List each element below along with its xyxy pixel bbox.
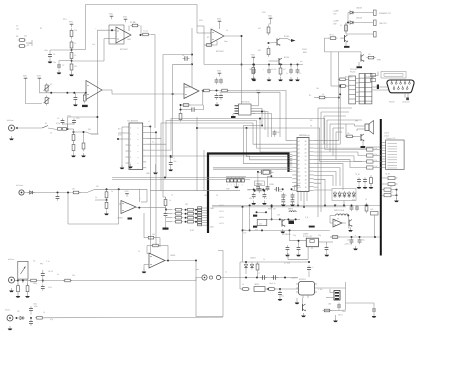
svg-text:VDD: VDD <box>268 15 273 17</box>
resistor R30 <box>365 203 368 213</box>
label TX <box>310 126 313 128</box>
svg-text:10k: 10k <box>375 166 378 168</box>
wire R47 in <box>338 78 349 80</box>
label 1k <box>340 25 342 27</box>
label BC546 <box>284 36 289 38</box>
svg-text:LCD16: LCD16 <box>384 133 389 135</box>
DB9 dark pad <box>406 98 409 101</box>
dark blob Q6 <box>361 146 366 148</box>
svg-text:p4: p4 <box>298 152 300 154</box>
label BC556 <box>284 57 289 59</box>
connector strip1 <box>349 76 356 104</box>
wire rail y168b <box>213 168 289 170</box>
label VBUS <box>256 183 263 186</box>
svg-text:+: + <box>263 69 264 71</box>
resistor R35 <box>366 54 381 62</box>
power VDD divider <box>69 21 74 27</box>
svg-text:18F2550 (s): 18F2550 (s) <box>299 135 310 137</box>
wire y212 stub <box>256 211 268 213</box>
resistor R7 <box>70 62 73 72</box>
label 18F2550 <box>299 135 310 137</box>
op-amp U1 <box>116 27 131 43</box>
ground C1 <box>48 59 53 63</box>
IC U7 pins left <box>126 127 130 163</box>
wire J2 rail <box>24 192 71 194</box>
label 7k5 <box>133 22 136 24</box>
svg-text:LCD20: LCD20 <box>384 135 389 137</box>
connector J3 BNC <box>9 277 15 283</box>
resistor ladder R-2R <box>166 208 197 223</box>
label PROG BY <box>350 69 358 74</box>
svg-text:100n: 100n <box>44 50 48 52</box>
svg-text:VDD: VDD <box>124 191 129 193</box>
svg-text:VDD: VDD <box>109 13 114 15</box>
capacitor C36h <box>274 187 293 191</box>
IC U10 pins right <box>309 140 314 190</box>
capacitor C14b <box>40 264 45 291</box>
IC X2 box <box>306 238 318 247</box>
wire mcu r6 <box>314 156 362 162</box>
transistor Q2 <box>269 58 283 65</box>
label box MHz <box>254 181 264 186</box>
svg-text:9V DC: 9V DC <box>338 315 344 317</box>
svg-text:VDD/2: VDD/2 <box>302 49 307 51</box>
wire switcher <box>330 216 348 224</box>
label 22p <box>318 235 321 237</box>
ground C2 <box>57 70 62 74</box>
label C3 <box>16 26 18 28</box>
label VUSB <box>269 184 274 186</box>
svg-text:1N4148: 1N4148 <box>356 8 362 10</box>
wire out1 <box>355 12 373 14</box>
wires below DB9 <box>405 93 408 101</box>
label conn top <box>384 133 389 138</box>
wire U1 +input <box>97 29 116 31</box>
wire fan x197 <box>196 117 198 191</box>
wire VDD to trimmer <box>26 81 43 104</box>
svg-text:p6: p6 <box>298 160 300 162</box>
wire mcu r4 <box>314 148 367 149</box>
wire mcu r13 <box>314 183 321 212</box>
capacitor C39 <box>285 245 290 256</box>
svg-text:In/Osc: In/Osc <box>5 310 11 312</box>
capacitor C35 <box>263 193 268 201</box>
svg-text:MCP602: MCP602 <box>216 51 225 53</box>
label 10k <box>316 88 319 90</box>
dark resistor A <box>253 215 257 217</box>
resistor R34 <box>278 65 285 82</box>
svg-text:1k 1%: 1k 1% <box>219 211 224 213</box>
label 100n <box>33 304 37 306</box>
bus thick LCD bus <box>380 119 382 256</box>
label F_B <box>305 217 309 219</box>
svg-text:R8: R8 <box>16 36 18 38</box>
capacitor C33 electrolytic <box>258 187 270 193</box>
svg-text:1k: 1k <box>43 312 45 314</box>
capacitor C15 <box>29 306 33 319</box>
resistor bus row 3 <box>367 160 381 163</box>
svg-text:RN 4x10k: RN 4x10k <box>345 77 353 79</box>
wire DDS fan pin3 <box>146 123 292 144</box>
connector P2 box <box>386 140 405 170</box>
capacitor C10 <box>72 118 79 125</box>
node U3b out <box>202 90 204 92</box>
IC U11 amp <box>299 279 315 295</box>
svg-text:+: + <box>140 198 141 200</box>
node U1 output <box>140 34 142 36</box>
svg-text:C1: C1 <box>53 54 55 56</box>
resistor R17 <box>72 142 75 152</box>
label D8 <box>211 208 215 210</box>
svg-text:2: 2 <box>130 133 131 135</box>
capacitor C24 <box>271 275 278 279</box>
label VDD <box>199 20 203 22</box>
resistor R45 <box>252 65 255 75</box>
wire mcu r8 <box>314 164 343 190</box>
capacitor C16 <box>29 318 33 326</box>
svg-text:1k: 1k <box>340 25 342 27</box>
svg-text:2R2: 2R2 <box>185 204 188 206</box>
svg-text:BC556: BC556 <box>284 57 289 59</box>
resistor R3 output U1 <box>141 33 150 36</box>
svg-text:OA1: OA1 <box>127 38 131 41</box>
wire fan low <box>171 156 293 160</box>
label SD <box>118 129 121 131</box>
svg-text:47u 16v: 47u 16v <box>271 69 277 71</box>
label In/Drive <box>7 119 14 122</box>
dark component C <box>289 221 295 225</box>
ground J4 <box>8 326 13 330</box>
resistor R44 <box>322 309 331 312</box>
svg-text:C+: C+ <box>312 267 314 269</box>
wire mcu RX <box>314 93 342 144</box>
wire rail y190 <box>150 190 240 192</box>
node J4 <box>16 317 18 319</box>
capacitor C20 <box>355 205 359 211</box>
svg-text:p7: p7 <box>298 164 300 166</box>
svg-text:10n: 10n <box>243 230 246 232</box>
power VDD Q1 <box>268 15 273 21</box>
IC U6 MCP41010 <box>239 102 252 116</box>
wire VDD P2 stem <box>38 81 40 93</box>
svg-text:1k: 1k <box>152 142 154 144</box>
label 470p <box>67 116 71 118</box>
capacitor C34 <box>249 193 256 201</box>
box LM285 <box>254 284 265 292</box>
capacitor C23 <box>260 275 267 279</box>
capacitor C28 <box>346 303 377 318</box>
wire node to R16 <box>68 129 74 134</box>
label C <box>174 158 176 160</box>
label 4k7 <box>258 50 261 52</box>
wire U1 -input <box>104 38 116 40</box>
ground U11 <box>295 298 300 304</box>
wire vertical x166 <box>165 144 167 177</box>
op-amp U5 <box>149 253 165 268</box>
label RX <box>310 120 313 122</box>
resistor bus row 2 <box>367 154 381 157</box>
wire U3a out <box>102 90 184 95</box>
wire DDS fan pin1 <box>146 126 151 128</box>
svg-text:p1: p1 <box>298 141 300 143</box>
svg-text:p14: p14 <box>298 191 301 193</box>
label C 10u <box>318 289 323 291</box>
connector header P1 <box>198 207 202 226</box>
wire top rail <box>85 5 197 50</box>
svg-text:C3: C3 <box>16 26 18 28</box>
ground C37 <box>281 202 286 206</box>
capacitor C5 <box>215 78 223 84</box>
svg-text:20: 20 <box>305 172 307 174</box>
label 1k <box>74 55 76 57</box>
label 1k <box>138 251 140 253</box>
svg-text:4k7: 4k7 <box>255 230 258 232</box>
IC U10 pin numbers <box>298 141 307 193</box>
op-amp U3a <box>86 81 102 100</box>
label 10n <box>16 29 19 31</box>
wire y264 rail <box>240 261 310 263</box>
label 1N4148 <box>356 8 362 10</box>
label 12V <box>344 243 353 246</box>
wire mcu r12 <box>314 179 325 205</box>
svg-text:PIC232: PIC232 <box>350 71 355 73</box>
capacitor C11 <box>169 156 173 167</box>
svg-text:7k5: 7k5 <box>133 22 136 24</box>
label 100n <box>247 190 251 192</box>
resistor R42 <box>240 288 250 291</box>
label SCK <box>118 135 122 137</box>
wire loop right <box>196 251 223 317</box>
svg-text:1k: 1k <box>226 30 228 32</box>
resistor R33 <box>267 46 270 56</box>
wires ICSP up <box>226 177 246 179</box>
strip pin stubs <box>356 78 360 101</box>
resistor P5 <box>23 271 54 298</box>
svg-text:1k: 1k <box>50 133 52 135</box>
label 100 <box>259 224 262 226</box>
label 470n <box>278 191 282 193</box>
svg-text:3k3: 3k3 <box>352 200 355 202</box>
svg-text:p5: p5 <box>298 156 300 158</box>
wire DDS fan pin4 <box>146 121 292 149</box>
svg-text:1N4148: 1N4148 <box>356 18 362 20</box>
resistor R37 <box>374 20 377 26</box>
label VDD <box>258 184 262 186</box>
label 1k <box>365 199 367 201</box>
svg-text:VDD: VDD <box>23 75 28 77</box>
resistor R16 <box>72 131 75 143</box>
svg-text:1k 1%: 1k 1% <box>219 223 224 225</box>
wire mcu r14 <box>314 187 318 217</box>
wire loop In/Counter <box>68 192 119 224</box>
wire U1 out to bus <box>151 34 156 36</box>
wire diag to stack <box>79 189 95 192</box>
wire out3 <box>346 33 373 35</box>
svg-text:VDD: VDD <box>217 70 222 72</box>
svg-text:10k: 10k <box>158 246 161 248</box>
resistor R40 <box>328 35 337 40</box>
wire mcu r11 <box>314 175 333 186</box>
svg-text:10k: 10k <box>72 275 75 277</box>
resistor R13 <box>220 89 229 92</box>
wire mcu r7 <box>314 160 367 168</box>
label VDD bias <box>302 49 307 54</box>
ground rail237 <box>353 246 358 250</box>
label 10k <box>158 246 161 248</box>
label + <box>140 198 141 200</box>
label 1k <box>242 284 244 286</box>
label In/Counter <box>16 184 24 187</box>
connector J5 jack <box>202 275 221 280</box>
svg-text:P1: P1 <box>50 84 52 86</box>
svg-text:LM285: LM285 <box>254 284 259 286</box>
capacitor C1 <box>48 52 55 58</box>
wire bundle tops <box>318 108 362 132</box>
wire caps up <box>63 124 75 129</box>
svg-text:C 10u: C 10u <box>318 289 323 291</box>
wire U2 output <box>224 35 243 104</box>
wire rail y189 <box>95 188 147 190</box>
speaker LS1 <box>365 121 374 135</box>
svg-text:PWR_ON: PWR_ON <box>268 209 276 211</box>
ground J1 <box>9 136 14 140</box>
svg-text:1k: 1k <box>263 259 265 261</box>
label 1u <box>57 274 59 276</box>
svg-text:1u: 1u <box>286 195 288 197</box>
svg-text:4k7: 4k7 <box>390 186 393 188</box>
wire x204 drop <box>203 150 205 191</box>
wire x249 down <box>249 204 251 231</box>
resistor R46 base <box>345 133 361 138</box>
label 1N4 <box>328 304 331 306</box>
svg-text:R1: R1 <box>40 28 42 30</box>
label S1 <box>45 123 47 125</box>
wire vertical x155 <box>154 35 156 129</box>
svg-text:10u 4.7u: 10u 4.7u <box>269 283 276 285</box>
resistor bus row 5 <box>382 177 398 180</box>
ground C35 <box>262 201 267 205</box>
label 10k <box>204 195 207 197</box>
svg-text:1k: 1k <box>95 197 97 199</box>
svg-text:1k 1%: 1k 1% <box>219 205 224 207</box>
wire mcu r9 <box>314 168 340 186</box>
svg-text:1k 10: 1k 10 <box>48 287 52 289</box>
power VDD 5v <box>251 54 256 65</box>
wire y189 stub <box>248 189 270 191</box>
labels ICSP <box>226 185 243 191</box>
capacitor C29 <box>273 130 281 137</box>
wire rail y205 <box>212 204 381 206</box>
box U12 <box>257 219 267 225</box>
capacitor C26 <box>278 290 283 300</box>
wire vertical x150 <box>149 127 151 254</box>
svg-text:100n: 100n <box>249 69 253 71</box>
resistor R20 <box>105 190 108 200</box>
capacitor C32 <box>295 65 301 82</box>
resistor R2 feedback U1 <box>129 22 141 35</box>
connector P2 labels <box>387 137 398 168</box>
wire U3b +in <box>184 86 192 88</box>
resistor R32 <box>267 21 270 35</box>
svg-text:1u: 1u <box>300 73 302 75</box>
svg-text:15: 15 <box>305 191 307 193</box>
wire corner box <box>294 186 300 191</box>
power VDD U1a <box>109 13 114 19</box>
svg-text:10k: 10k <box>375 154 378 156</box>
op-amp U4 <box>121 201 136 214</box>
label 4.5V left <box>243 233 247 235</box>
ground R17 <box>71 153 76 157</box>
label RN 4x10k <box>345 77 353 79</box>
wire X1 bottom <box>254 190 266 192</box>
IC U7 AD9833 body <box>129 123 143 170</box>
wire rail y237 <box>330 236 381 238</box>
wire audio rail <box>221 277 298 279</box>
bus pins to MCU <box>289 155 293 172</box>
ground pullups <box>394 198 399 202</box>
ground U7 pin <box>128 164 133 168</box>
label 10k <box>152 234 155 236</box>
svg-text:16: 16 <box>305 187 307 189</box>
svg-text:PROG BY: PROG BY <box>350 69 358 71</box>
svg-text:18: 18 <box>305 179 307 181</box>
svg-text:VDD: VDD <box>256 90 261 92</box>
label 7.5_1k <box>143 31 148 33</box>
label 12V <box>277 215 281 217</box>
ground C3 <box>73 102 78 106</box>
node rail dots <box>268 64 299 66</box>
svg-text:Gen AD9833: Gen AD9833 <box>127 120 138 123</box>
svg-text:4k7: 4k7 <box>258 28 261 30</box>
svg-text:ICSP: ICSP <box>226 189 230 191</box>
ground J3 <box>9 288 14 292</box>
resistor R41 <box>256 262 259 278</box>
svg-text:33k: 33k <box>334 205 337 207</box>
wire divider tapB <box>59 61 72 63</box>
ground U7 mid <box>153 164 158 174</box>
wire db9 route rect2 <box>384 74 403 77</box>
label R1 <box>40 28 42 30</box>
resistor R18 <box>82 141 85 151</box>
transistor Q4 <box>281 220 286 234</box>
ground R18 <box>81 153 86 157</box>
svg-text:PPO: PPO <box>69 21 74 23</box>
wire serial up2 <box>339 85 341 94</box>
label ICL <box>33 261 36 263</box>
wire x118 down <box>119 189 121 207</box>
wire to MCU left <box>227 91 292 141</box>
label TX_BL <box>385 174 390 176</box>
ground R21 <box>104 211 109 215</box>
IC U10 pins left <box>292 140 297 190</box>
label 22k <box>24 36 27 38</box>
svg-text:1u: 1u <box>258 273 260 275</box>
wire tapA to U1 <box>72 49 86 51</box>
label 4x10k <box>366 77 371 79</box>
svg-text:1k: 1k <box>169 200 171 202</box>
wire Q1 collector <box>280 39 296 43</box>
wire R20 tap <box>95 199 107 201</box>
svg-text:p9: p9 <box>298 172 300 174</box>
transistor Q5 <box>348 220 353 232</box>
svg-text:p2: p2 <box>298 145 300 147</box>
svg-text:22k: 22k <box>24 36 27 38</box>
wire U7 left pins <box>117 133 126 140</box>
wire R48 in <box>331 85 349 87</box>
svg-text:17: 17 <box>305 183 307 185</box>
label MCP602 U2 <box>216 51 225 53</box>
label 20MHz <box>303 234 309 236</box>
